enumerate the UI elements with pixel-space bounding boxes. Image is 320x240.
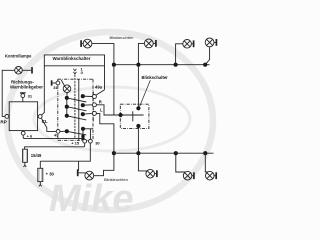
wire contact row to 30 [89,129,91,140]
lamp B3 [183,171,194,180]
wire bus to lamp B3 [176,153,185,172]
wire lamp T2 drop through bus to Blinkschalter [138,43,144,108]
svg-text:31: 31 [53,85,58,90]
lamp T4 [205,38,216,47]
blinkschalter contacts [121,114,144,116]
wire kontrollampe to RP [2,70,15,116]
fuse F1 15/49 [23,149,28,162]
svg-text:+ 30: + 30 [46,171,55,176]
lamp L2 switch illumination [61,80,71,98]
wire bus to lamp B2 [138,153,146,171]
svg-text:Blinkschalter: Blinkschalter [142,75,169,80]
Richtungs-Warnblinkgeber box U1 [9,102,37,131]
wire lamp T4 drop [205,47,209,65]
bottom bus wire [114,152,214,154]
wire +15 to fuse F1 [25,143,85,149]
watermark inner ring [34,87,190,151]
svg-text:Kontrollampe: Kontrollampe [5,54,32,59]
wire R to Blinkschalter [96,105,120,115]
contact stubs to right terminals [83,95,93,97]
wire 30 down-left to fuse2 and lamp bar [40,143,90,161]
terminal CL [38,115,42,119]
terminal +6 [21,131,25,136]
terminal 49a [92,95,96,99]
junction dots buses [112,63,208,156]
wire staircase to lamp B1 [94,153,114,176]
svg-text:+ 6: + 6 [27,134,33,139]
label box Warnblinkschalter bottom edge [44,65,104,67]
Warnblinkschalter enclosure (dash-dot) [58,79,93,140]
terminal RP [5,115,9,119]
terminal 31 flasher [20,93,26,102]
lamp B4 [206,171,217,180]
wire 49a diagonal to circle [96,90,105,95]
fuse F2 +30 [38,168,43,181]
svg-text:Blinkleuchten: Blinkleuchten [104,177,128,182]
lamp T1 [81,39,92,48]
svg-text:R: R [99,100,102,105]
svg-text:49a: 49a [95,85,103,90]
wire 49 terminal stub [60,130,65,132]
wire top bus down to R wire [113,65,115,115]
lamp K1 Kontrollampe [15,67,32,75]
watermark ellipse [7,32,213,210]
terminal L [92,111,96,115]
lamp B2 [146,169,157,178]
Blinkschalter enclosure (dash-dot) [120,104,149,128]
leader line Blinkschalter label [140,80,151,106]
svg-text:RP: RP [0,119,6,124]
wire bus to lamp B4 [205,153,207,172]
wire +6 to junction [23,135,83,139]
wire CL diagonal to 49 [41,118,56,131]
wire CL up and over to 49a [42,55,105,115]
svg-text:CL: CL [42,119,48,124]
wire lamp T3 drop [176,44,183,65]
lamp T3 [183,40,194,49]
svg-text:30: 30 [95,140,100,145]
lamp B1 [78,169,94,180]
terminal 31 hazard [52,80,60,85]
actuator arrows [73,69,76,74]
terminal 30 [89,139,93,143]
wire L down to bottom bus [96,113,114,153]
svg-text:Warnblinkschalter: Warnblinkschalter [53,56,91,61]
contact blades (open) [67,98,87,102]
terminal R [92,103,96,107]
svg-text:L: L [100,108,103,113]
svg-text:31: 31 [28,94,33,99]
lamp T2 [144,39,155,48]
inner wire column [78,79,80,140]
svg-text:Mike: Mike [49,178,133,220]
terminal 49 [56,130,60,134]
wire lamp T1 drop [92,44,114,65]
contact column left wire [66,98,68,116]
svg-text:0: 0 [81,70,84,75]
terminal +15 [83,139,87,143]
svg-text:49: 49 [54,133,59,138]
svg-text:Warnblinkgeber: Warnblinkgeber [10,85,43,90]
svg-text:Blinkleuchten: Blinkleuchten [110,35,134,40]
svg-text:15/49: 15/49 [31,153,42,158]
top bus wire [114,64,210,66]
linkage of right terminals (dash-dot) [92,92,94,122]
actuator linkage (dash) [74,75,76,139]
svg-text:+ 15: + 15 [71,140,80,145]
wire contact column to +15 [83,129,84,140]
junction dots hazard switch [65,94,85,140]
